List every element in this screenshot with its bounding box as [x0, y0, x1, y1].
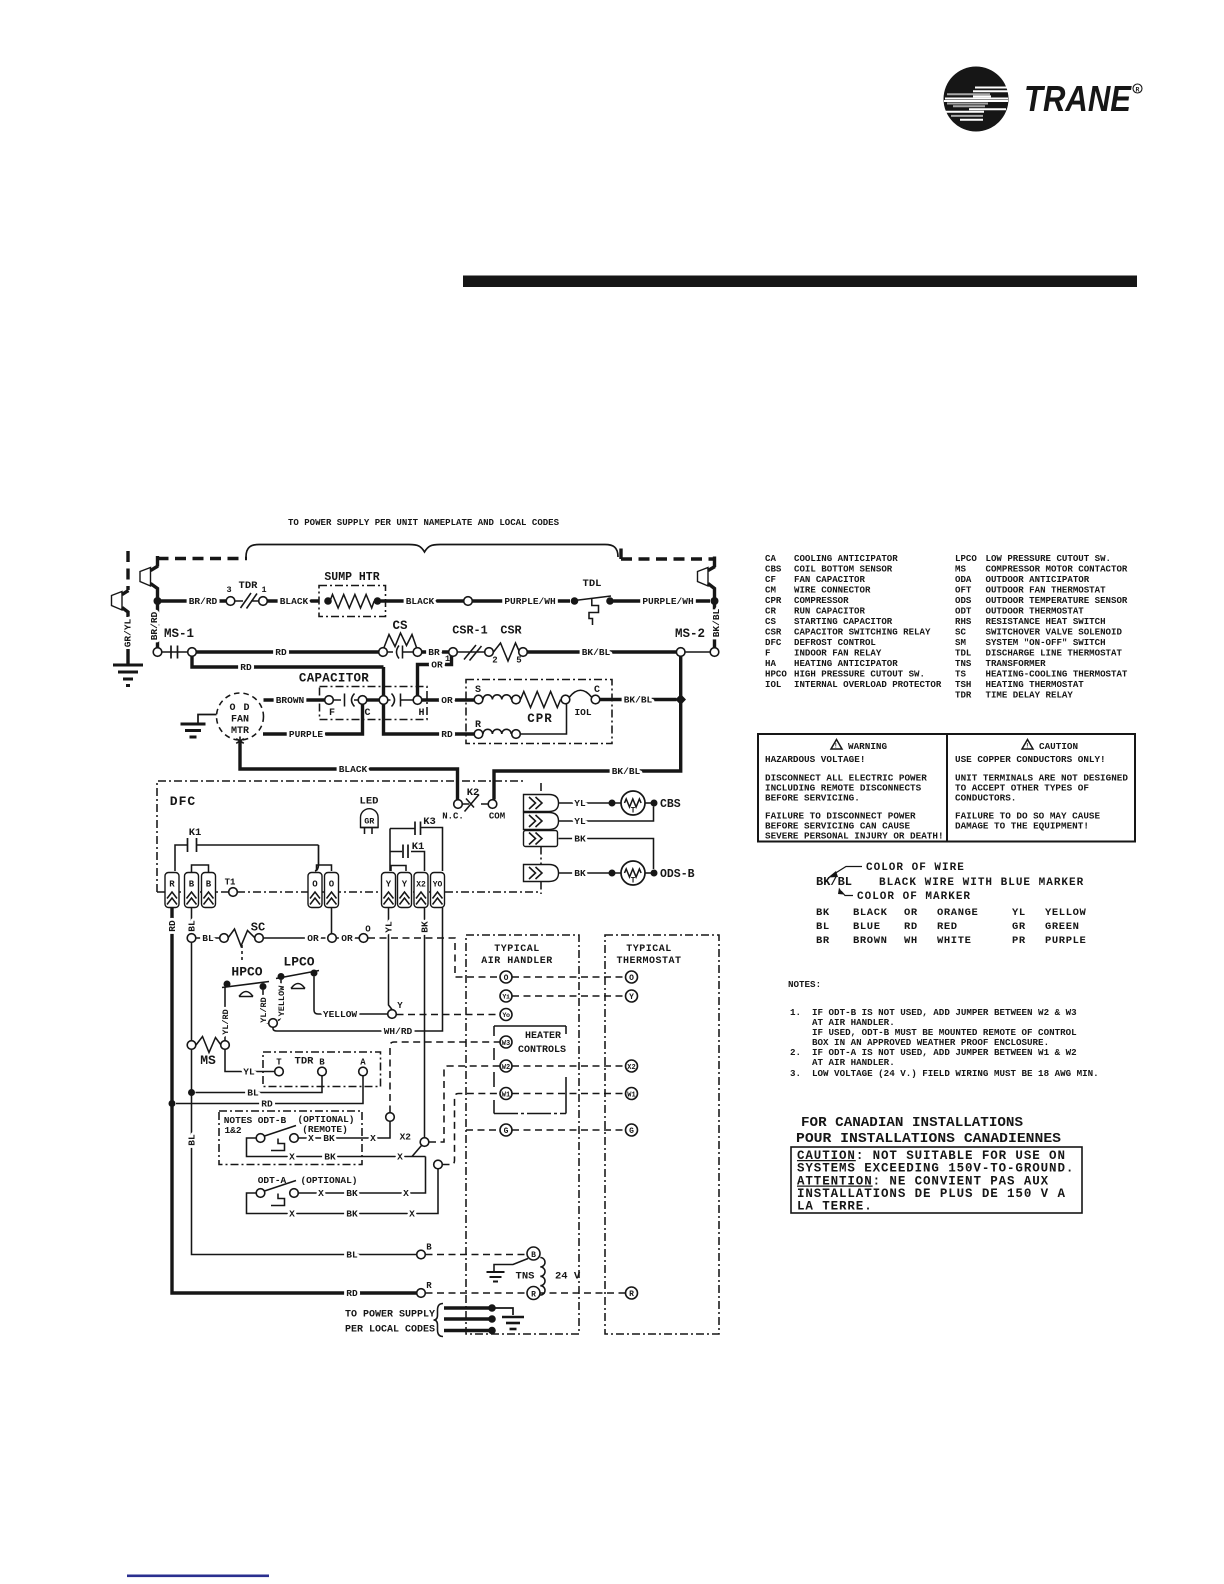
svg-text:GR: GR — [364, 817, 375, 827]
terminal O (air handler) — [500, 971, 512, 983]
svg-text:TRANE: TRANE — [1024, 78, 1132, 119]
wire W3 feed dashed — [390, 1042, 500, 1113]
svg-text:NOTES:: NOTES: — [788, 979, 821, 990]
svg-text:1: 1 — [445, 654, 450, 664]
svg-text:SYSTEMS EXCEEDING 150V-TO-GROU: SYSTEMS EXCEEDING 150V-TO-GROUND. — [797, 1162, 1074, 1176]
svg-text:TNS: TNS — [955, 658, 972, 669]
svg-text:THERMOSTAT: THERMOSTAT — [616, 956, 681, 967]
svg-text:INTERNAL OVERLOAD PROTECTOR: INTERNAL OVERLOAD PROTECTOR — [794, 679, 942, 690]
svg-text:TNS: TNS — [516, 1271, 535, 1283]
terminal Y (thermostat) — [626, 990, 638, 1002]
svg-text:BLACK: BLACK — [853, 907, 888, 919]
svg-text:DFC: DFC — [765, 637, 782, 648]
svg-text:INDOOR FAN RELAY: INDOOR FAN RELAY — [794, 648, 882, 659]
svg-text:B: B — [189, 880, 195, 890]
wire LPCO left to junction — [278, 980, 281, 1021]
svg-text:CM: CM — [765, 585, 776, 596]
svg-text:X2: X2 — [416, 881, 426, 890]
solenoid SC row — [187, 934, 196, 943]
svg-text:HEATER: HEATER — [525, 1031, 561, 1042]
svg-text:YL: YL — [1012, 907, 1026, 919]
terminal W3 — [500, 1036, 512, 1048]
svg-text:CF: CF — [765, 574, 776, 585]
node R — [417, 1289, 426, 1298]
wire: dashed power feed left — [158, 557, 248, 560]
svg-text:BLUE: BLUE — [853, 921, 881, 933]
svg-text:BK: BK — [346, 1188, 358, 1199]
svg-text:BK/BL: BK/BL — [624, 695, 653, 706]
wire OR from CSR-1 terminal 1 down to H — [418, 656, 452, 696]
node Y — [388, 1010, 397, 1019]
node B — [417, 1250, 426, 1259]
svg-text:OR: OR — [904, 907, 918, 919]
svg-text:RD: RD — [346, 1288, 358, 1299]
svg-text:POUR INSTALLATIONS CANADIENNES: POUR INSTALLATIONS CANADIENNES — [796, 1132, 1061, 1147]
wire BROWN — [264, 698, 325, 701]
svg-text:T: T — [276, 1058, 282, 1068]
svg-text:MTR: MTR — [231, 726, 249, 737]
wire ODT-B common — [247, 1138, 426, 1157]
svg-text:TRANSFORMER: TRANSFORMER — [986, 658, 1047, 669]
svg-text:1.: 1. — [790, 1007, 801, 1018]
jumper B-B — [192, 865, 209, 872]
jumper O-O — [317, 865, 332, 871]
wire: dashed power feed right — [621, 557, 715, 560]
svg-text:BK: BK — [324, 1152, 336, 1163]
svg-text:MS-1: MS-1 — [164, 627, 194, 641]
svg-text:Y: Y — [386, 880, 392, 890]
svg-text:RED: RED — [937, 921, 958, 933]
svg-text:BLACK WIRE WITH BLUE MARKER: BLACK WIRE WITH BLUE MARKER — [879, 877, 1084, 889]
wire BL to TDR B — [196, 1076, 323, 1093]
svg-text:RD: RD — [240, 662, 252, 673]
wire HPCO to junction — [263, 990, 269, 1023]
svg-text:COIL BOTTOM SENSOR: COIL BOTTOM SENSOR — [794, 564, 893, 575]
svg-text:R: R — [531, 1291, 536, 1300]
svg-text:CA: CA — [765, 553, 776, 564]
wire BL main vertical — [192, 908, 417, 1255]
svg-text:O: O — [365, 925, 371, 935]
svg-text:SC: SC — [251, 921, 265, 935]
svg-text:TDR: TDR — [295, 1056, 315, 1068]
svg-text:X: X — [370, 1133, 376, 1144]
svg-text:BEFORE SERVICING.: BEFORE SERVICING. — [765, 793, 860, 804]
svg-text:A: A — [360, 1058, 366, 1068]
svg-text:Y: Y — [397, 1001, 403, 1011]
svg-text:COMPRESSOR: COMPRESSOR — [794, 595, 849, 606]
svg-text:DISCHARGE LINE THERMOSTAT: DISCHARGE LINE THERMOSTAT — [986, 648, 1123, 659]
svg-text:COLOR OF WIRE: COLOR OF WIRE — [866, 862, 965, 874]
terminal O (thermostat) — [626, 971, 638, 983]
svg-text:Yi: Yi — [502, 994, 510, 1002]
wire MS to HPCO — [225, 984, 227, 1041]
svg-text:HPCO: HPCO — [231, 965, 262, 980]
svg-text:B: B — [319, 1058, 325, 1068]
capacitor F terminal — [325, 696, 334, 705]
svg-text:CBS: CBS — [660, 798, 681, 811]
svg-text:IOL: IOL — [765, 679, 781, 690]
wire YL from Y tab — [389, 908, 393, 1010]
box TYPICAL THERMOSTAT — [605, 935, 719, 1334]
svg-text:W2: W2 — [502, 1064, 510, 1072]
svg-text:WIRE CONNECTOR: WIRE CONNECTOR — [794, 585, 871, 596]
svg-text:BR: BR — [816, 935, 830, 947]
svg-text:B: B — [206, 880, 212, 890]
svg-text:BL: BL — [346, 1250, 358, 1261]
wire Y dashed to Yo — [397, 1014, 501, 1016]
svg-text:GR/YL: GR/YL — [123, 618, 134, 647]
node junction line 2 right — [711, 597, 719, 605]
compressor CPR box — [466, 680, 612, 744]
svg-text:CBS: CBS — [765, 564, 782, 575]
svg-text:H: H — [418, 708, 424, 719]
svg-text:TYPICAL: TYPICAL — [494, 944, 540, 955]
wire G to G dashed — [512, 1129, 626, 1131]
thermostat ODT-B box — [219, 1111, 362, 1165]
svg-text:OFT: OFT — [955, 585, 972, 596]
svg-text:BK/BL: BK/BL — [582, 647, 611, 658]
svg-text:CR: CR — [765, 606, 776, 617]
wire ODT-A common — [247, 1169, 439, 1214]
svg-text:COMPRESSOR MOTOR CONTACTOR: COMPRESSOR MOTOR CONTACTOR — [986, 564, 1128, 575]
svg-text:CPR: CPR — [527, 712, 553, 726]
svg-text:HAZARDOUS VOLTAGE!: HAZARDOUS VOLTAGE! — [765, 754, 865, 765]
svg-text:OUTDOOR FAN THERMOSTAT: OUTDOOR FAN THERMOSTAT — [986, 585, 1107, 596]
svg-text:TS: TS — [955, 669, 966, 680]
svg-text:LOW PRESSURE CUTOUT SW.: LOW PRESSURE CUTOUT SW. — [986, 553, 1112, 564]
wire G stub left dashed — [466, 1129, 500, 1131]
svg-text:K1: K1 — [189, 827, 202, 839]
svg-text:YO: YO — [433, 881, 443, 890]
svg-text:Y: Y — [629, 993, 634, 1002]
svg-text:X: X — [308, 1133, 314, 1144]
svg-text:3: 3 — [226, 585, 231, 595]
wire Yi to Y dashed — [512, 995, 626, 997]
svg-text:AT AIR HANDLER.: AT AIR HANDLER. — [812, 1057, 895, 1068]
wire BK/BL from CPR C — [600, 698, 677, 701]
svg-text:MS: MS — [955, 564, 966, 575]
svg-text:RD: RD — [275, 647, 287, 658]
svg-text:HEATING THERMOSTAT: HEATING THERMOSTAT — [986, 679, 1085, 690]
svg-text:X2: X2 — [627, 1064, 635, 1072]
svg-text:BK: BK — [574, 868, 586, 879]
svg-text:SUMP HTR: SUMP HTR — [324, 571, 379, 584]
svg-text:BL: BL — [202, 933, 214, 944]
svg-text:CAPACITOR: CAPACITOR — [299, 672, 369, 686]
svg-text:TDL: TDL — [583, 578, 602, 590]
svg-text:SWITCHOVER VALVE SOLENOID: SWITCHOVER VALVE SOLENOID — [986, 627, 1123, 638]
sensor ODS-B — [559, 839, 654, 870]
terminal Yi — [500, 990, 512, 1002]
svg-text:G: G — [629, 1127, 634, 1136]
svg-text:BL: BL — [247, 1088, 259, 1099]
svg-text:YL/RD: YL/RD — [221, 1009, 231, 1035]
wire WH/RD from YO tab to junction — [273, 908, 443, 1032]
svg-text:COLOR OF MARKER: COLOR OF MARKER — [857, 891, 971, 903]
svg-text:CAUTION: CAUTION — [1039, 741, 1078, 752]
svg-text:!: ! — [1025, 743, 1029, 750]
svg-text:Y: Y — [402, 880, 408, 890]
color of wire key — [816, 862, 1084, 903]
svg-text:STARTING CAPACITOR: STARTING CAPACITOR — [794, 616, 893, 627]
svg-text:24 V: 24 V — [555, 1271, 581, 1283]
svg-text:BK/BL: BK/BL — [711, 608, 722, 637]
svg-text:LPCO: LPCO — [955, 553, 977, 564]
capacitor H terminal — [413, 696, 422, 705]
svg-text:ORANGE: ORANGE — [937, 907, 978, 919]
node junction — [269, 1019, 278, 1028]
svg-text:YL/RD: YL/RD — [259, 997, 269, 1023]
transformer TNS — [527, 1247, 540, 1260]
wire RD MS-1 to CS — [197, 650, 379, 653]
svg-text:OR: OR — [441, 695, 453, 706]
wire PURPLE/WH right — [614, 599, 711, 602]
svg-text:SEVERE PERSONAL INJURY OR DEAT: SEVERE PERSONAL INJURY OR DEATH! — [765, 831, 944, 842]
svg-text:YL: YL — [384, 921, 395, 933]
svg-text:F: F — [329, 708, 335, 719]
svg-text:BL: BL — [187, 920, 198, 932]
svg-text:FAN CAPACITOR: FAN CAPACITOR — [794, 574, 865, 585]
wire BLACK to sump — [268, 599, 320, 602]
wire BR — [422, 650, 449, 653]
svg-text:PURPLE: PURPLE — [289, 729, 324, 740]
ground at motor — [198, 715, 217, 723]
svg-text:WARNING: WARNING — [848, 741, 887, 752]
svg-text:YL: YL — [574, 798, 586, 809]
svg-text:OR: OR — [307, 933, 319, 944]
svg-text:X: X — [318, 1188, 324, 1199]
wire RD branch to capacitor — [192, 657, 384, 668]
svg-text:RUN CAPACITOR: RUN CAPACITOR — [794, 606, 865, 617]
wire BR/RD to TDR — [161, 599, 226, 602]
svg-text:OR: OR — [431, 660, 443, 671]
svg-text:MS: MS — [200, 1053, 216, 1068]
svg-text:BK: BK — [420, 921, 431, 933]
svg-text:SM: SM — [955, 637, 966, 648]
svg-text:TDL: TDL — [955, 648, 971, 659]
svg-text:G: G — [504, 1127, 509, 1136]
time delay relay TDR box — [263, 1052, 381, 1087]
svg-text:ODS: ODS — [955, 595, 972, 606]
svg-text:TSH: TSH — [955, 679, 971, 690]
svg-text:BLACK: BLACK — [339, 764, 368, 775]
svg-text:WH: WH — [904, 935, 918, 947]
svg-text:TO POWER SUPPLY PER UNIT NAMEP: TO POWER SUPPLY PER UNIT NAMEPLATE AND L… — [288, 517, 559, 528]
svg-text:PER LOCAL CODES: PER LOCAL CODES — [345, 1325, 435, 1336]
svg-text:C: C — [364, 708, 370, 719]
svg-text:GREEN: GREEN — [1045, 921, 1080, 933]
svg-text:BK/BL: BK/BL — [612, 766, 641, 777]
svg-text:N.C.: N.C. — [442, 812, 464, 822]
svg-text:CAPACITOR SWITCHING RELAY: CAPACITOR SWITCHING RELAY — [794, 627, 931, 638]
svg-text:ODA: ODA — [955, 574, 972, 585]
wire W1 to W1 dashed — [512, 1093, 626, 1095]
terminal W1 (thermostat) — [626, 1088, 638, 1100]
svg-text:S: S — [475, 685, 481, 696]
svg-text:USE COPPER CONDUCTORS ONLY!: USE COPPER CONDUCTORS ONLY! — [955, 754, 1106, 765]
capacitor C terminal — [358, 696, 367, 705]
svg-text:2: 2 — [492, 656, 497, 666]
svg-text:MS-2: MS-2 — [675, 627, 705, 641]
wire BK/BL from MS-2 down — [494, 657, 681, 800]
wire BR/RD down to MS-1 — [156, 604, 159, 648]
terminal Yo — [500, 1009, 512, 1021]
svg-text:BL: BL — [816, 921, 830, 933]
svg-text:BR/RD: BR/RD — [189, 596, 218, 607]
wire RD to CPR R — [384, 705, 475, 735]
svg-text:LA TERRE.: LA TERRE. — [797, 1200, 873, 1214]
connector flag (line 2 right) — [698, 568, 709, 587]
svg-text:RHS: RHS — [955, 616, 972, 627]
svg-text:BROWN: BROWN — [276, 695, 305, 706]
svg-text:2.: 2. — [790, 1047, 801, 1058]
svg-text:R: R — [629, 1290, 634, 1299]
svg-text:O: O — [312, 880, 318, 890]
svg-text:C: C — [594, 685, 600, 696]
svg-text:X2: X2 — [400, 1132, 412, 1143]
motor O D FAN MTR — [217, 693, 264, 740]
box HEATER CONTROLS — [494, 1113, 566, 1115]
svg-text:W3: W3 — [502, 1040, 510, 1048]
svg-text:BROWN: BROWN — [853, 935, 888, 947]
svg-text:T: T — [631, 877, 636, 886]
svg-text:O: O — [629, 974, 634, 983]
node splice on line 1 — [464, 597, 473, 606]
wire O2 tab drop — [331, 908, 333, 934]
terminal G — [500, 1124, 512, 1136]
svg-text:O: O — [329, 880, 335, 890]
svg-text:O: O — [504, 974, 509, 983]
svg-text:LED: LED — [360, 796, 379, 808]
notes — [788, 979, 1099, 1079]
terminal W1 — [500, 1088, 512, 1100]
wire BLACK right of sump — [381, 599, 464, 602]
terminal strip R B B O O Y Y X2 YO — [165, 873, 445, 908]
svg-text:1&2: 1&2 — [224, 1125, 241, 1136]
svg-text:CONTROLS: CONTROLS — [518, 1045, 566, 1056]
wire YL to TDR T — [225, 1050, 275, 1072]
svg-text:RD: RD — [261, 1099, 273, 1110]
wire connectors CM (right edge) — [524, 795, 559, 812]
brace under label — [246, 545, 618, 558]
svg-text:COM: COM — [489, 812, 505, 822]
svg-text:BK: BK — [574, 834, 586, 845]
box TYPICAL AIR HANDLER — [466, 935, 579, 1334]
svg-text:F: F — [765, 648, 770, 659]
svg-text:YL: YL — [574, 816, 586, 827]
svg-text:WH/RD: WH/RD — [384, 1026, 413, 1037]
Trane logo globe — [944, 67, 1009, 132]
svg-text:PR: PR — [1012, 935, 1026, 947]
terminal R (thermostat) — [626, 1287, 638, 1299]
svg-text:BR/RD: BR/RD — [149, 611, 160, 640]
wire X2 to W2 dashed — [429, 1066, 500, 1142]
wire to W1 dashed — [443, 1094, 501, 1165]
svg-text:W1: W1 — [627, 1092, 635, 1100]
svg-text:WHITE: WHITE — [937, 935, 972, 947]
svg-text:T1: T1 — [225, 878, 236, 888]
svg-text:CS: CS — [392, 619, 408, 633]
svg-text:X: X — [289, 1209, 295, 1220]
svg-text:W1: W1 — [502, 1092, 510, 1100]
svg-text:OUTDOOR TEMPERATURE SENSOR: OUTDOOR TEMPERATURE SENSOR — [986, 595, 1128, 606]
svg-text:R: R — [169, 880, 175, 890]
wire RD main vertical — [172, 908, 417, 1294]
svg-text:BK: BK — [346, 1209, 358, 1220]
svg-text:!: ! — [834, 743, 838, 750]
svg-text:BR: BR — [428, 647, 440, 658]
svg-text:DFC: DFC — [170, 794, 196, 809]
wire RD to TDR A — [176, 1076, 363, 1104]
svg-text:SYSTEM "ON-OFF" SWITCH: SYSTEM "ON-OFF" SWITCH — [986, 637, 1106, 648]
svg-text:Yo: Yo — [502, 1012, 510, 1020]
wire BK from X2 tab down — [424, 908, 426, 1138]
svg-text:PURPLE/WH: PURPLE/WH — [642, 596, 694, 607]
svg-text:X: X — [403, 1188, 409, 1199]
svg-text:SC: SC — [955, 627, 966, 638]
wire BK/BL down to MS-2 — [713, 604, 716, 648]
svg-text:1: 1 — [261, 585, 266, 595]
svg-text:TIME DELAY RELAY: TIME DELAY RELAY — [986, 690, 1074, 701]
wire LPCO right to YELLOW — [314, 977, 388, 1015]
svg-text:YELLOW: YELLOW — [277, 985, 287, 1017]
svg-text:HPCO: HPCO — [765, 669, 787, 680]
wire OR H to CPR S — [422, 698, 474, 701]
svg-text:B: B — [531, 1251, 536, 1260]
wire W2 to X2 dashed — [512, 1065, 626, 1067]
svg-text:HIGH PRESSURE CUTOUT SW.: HIGH PRESSURE CUTOUT SW. — [794, 669, 925, 680]
svg-text:LPCO: LPCO — [283, 955, 314, 970]
svg-text:5: 5 — [516, 656, 521, 666]
svg-text:RD: RD — [441, 729, 453, 740]
footer blue line — [127, 1575, 269, 1578]
wire BLACK from motor to K2 — [240, 740, 458, 800]
svg-text:R: R — [1136, 87, 1140, 94]
svg-text:IOL: IOL — [574, 707, 591, 718]
svg-text:X: X — [409, 1209, 415, 1220]
svg-text:ODS-B: ODS-B — [660, 868, 695, 881]
wire: GR/YL dashed drop — [126, 551, 129, 590]
terminal W2 — [500, 1060, 512, 1072]
svg-text:RD: RD — [167, 920, 178, 932]
svg-text:B: B — [426, 1243, 432, 1253]
svg-text:DEFROST CONTROL: DEFROST CONTROL — [794, 637, 876, 648]
svg-text:COOLING ANTICIPATOR: COOLING ANTICIPATOR — [794, 553, 898, 564]
wire O dashed to air handler — [368, 938, 500, 977]
svg-text:YELLOW: YELLOW — [1045, 907, 1087, 919]
terminal G (thermostat) — [626, 1124, 638, 1136]
wire O to O dashed — [512, 976, 626, 978]
svg-text:ODT-B: ODT-B — [258, 1115, 287, 1126]
svg-text:K3: K3 — [423, 816, 436, 828]
svg-text:X: X — [289, 1152, 295, 1163]
svg-text:R: R — [426, 1281, 432, 1291]
black divider bar — [463, 276, 1137, 288]
terminal X2 (thermostat) — [626, 1060, 638, 1072]
svg-text:(OPTIONAL): (OPTIONAL) — [300, 1175, 357, 1186]
svg-text:X: X — [397, 1152, 403, 1163]
connector flag (ground lead) — [112, 592, 123, 611]
svg-text:CSR: CSR — [765, 627, 782, 638]
wire PURPLE/WH — [473, 599, 571, 602]
svg-text:CS: CS — [765, 616, 776, 627]
svg-text:FAN: FAN — [231, 715, 249, 726]
svg-text:ODT: ODT — [955, 606, 972, 617]
svg-text:HEATING-COOLING THERMOSTAT: HEATING-COOLING THERMOSTAT — [986, 669, 1128, 680]
svg-text:BL: BL — [187, 1134, 198, 1146]
connector flag (line 1 left) — [140, 568, 151, 587]
svg-text:3.: 3. — [790, 1068, 801, 1079]
